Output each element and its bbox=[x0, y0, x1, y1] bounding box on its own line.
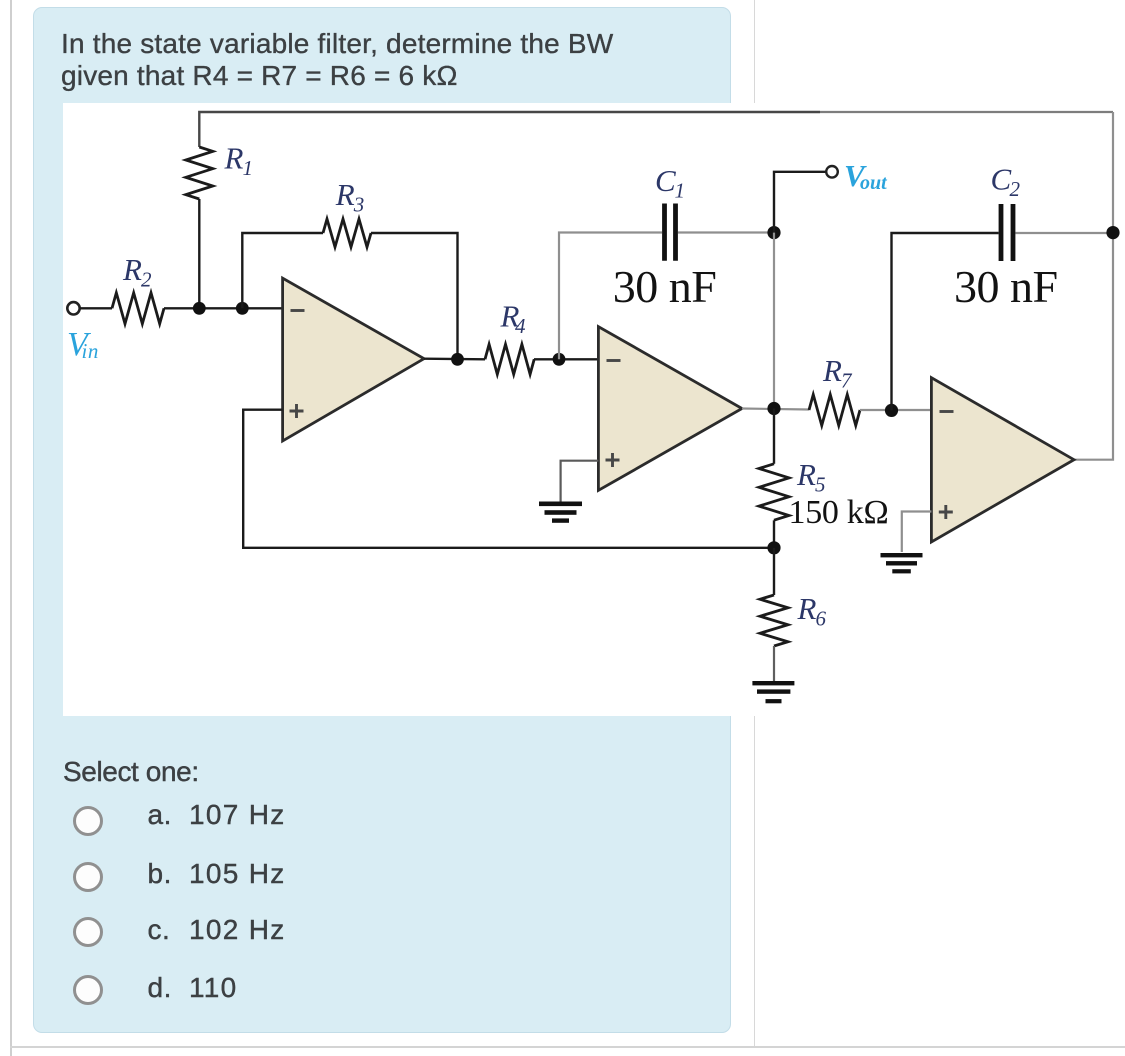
wire C1 right plate to Vout node bbox=[678, 231, 774, 233]
ground U3 plus bbox=[881, 553, 923, 573]
wire right vertical from C2 node down to op-amp U3 output bbox=[1074, 233, 1113, 460]
svg-text:1: 1 bbox=[675, 179, 686, 203]
svg-text:C: C bbox=[991, 162, 1012, 197]
node bottom rail junction R5/R6 bbox=[767, 541, 780, 554]
label value 30 nF for C2 bbox=[954, 261, 1058, 312]
node junction R7 / C2 branch bbox=[885, 404, 898, 417]
svg-text:R: R bbox=[122, 252, 142, 287]
ground R6 bbox=[752, 681, 794, 703]
wire R3 right side down to U1 output bbox=[371, 233, 458, 359]
resistor R4 bbox=[485, 344, 534, 374]
wire C1 left branch vertical bbox=[559, 233, 662, 360]
wire right vertical from top corner down to C2 right node bbox=[1112, 112, 1114, 233]
node junction R1/R2 bbox=[193, 302, 206, 315]
svg-text:R: R bbox=[822, 353, 842, 388]
label R6 bbox=[797, 591, 827, 631]
resistor R1 bbox=[186, 147, 213, 199]
svg-text:3: 3 bbox=[353, 193, 365, 217]
node junction R4 / C1 branch bbox=[553, 353, 566, 366]
wire R4 to op-amp U2 inverting input bbox=[534, 358, 598, 360]
svg-text:C: C bbox=[655, 163, 676, 198]
op-amp U3 bbox=[931, 378, 1074, 542]
capacitor C1 bbox=[665, 204, 676, 261]
svg-text:2: 2 bbox=[1010, 177, 1021, 201]
wire rail node to R6 bbox=[773, 548, 775, 595]
svg-text:R: R bbox=[335, 177, 355, 212]
wire from R1 bottom to input node bbox=[198, 199, 200, 308]
wire R7 to op-amp U3 inverting input bbox=[860, 409, 931, 411]
svg-text:5: 5 bbox=[815, 473, 826, 497]
wire U3 plus input to ground bbox=[902, 512, 932, 553]
op-amp U1 bbox=[283, 278, 424, 441]
label Vin bbox=[67, 326, 99, 363]
wire U2 plus input to ground bbox=[561, 461, 599, 502]
resistor R5 150 kOhm bbox=[759, 464, 789, 520]
svg-text:R: R bbox=[797, 591, 817, 626]
wire U1 plus input feedback loop to bottom rail bbox=[243, 410, 774, 548]
svg-text:R: R bbox=[796, 457, 816, 492]
svg-text:2: 2 bbox=[141, 268, 152, 292]
label C1 bbox=[655, 163, 685, 203]
svg-text:30 nF: 30 nF bbox=[613, 261, 717, 312]
label value 30 nF for C1 bbox=[613, 261, 717, 312]
svg-text:in: in bbox=[82, 339, 99, 363]
node U1 output junction bbox=[451, 353, 464, 366]
node Vout terminal bbox=[826, 166, 838, 178]
svg-text:150 kΩ: 150 kΩ bbox=[789, 494, 889, 531]
node Vin terminal bbox=[67, 302, 79, 314]
wire U2 output to R7 bbox=[742, 409, 809, 410]
wire Vin to R2 bbox=[80, 307, 112, 309]
label Vout bbox=[844, 158, 888, 194]
label R4 bbox=[500, 298, 527, 338]
label R1 bbox=[224, 141, 254, 181]
resistor R3 bbox=[323, 219, 371, 247]
ground U2 plus bbox=[539, 502, 582, 523]
wire R5 branch from U2 output down bbox=[773, 409, 775, 464]
resistor R7 bbox=[809, 395, 860, 426]
label R2 bbox=[122, 252, 152, 292]
svg-text:7: 7 bbox=[841, 369, 853, 393]
label C2 bbox=[991, 162, 1021, 202]
svg-text:out: out bbox=[860, 172, 888, 194]
capacitor C2 bbox=[1001, 204, 1013, 261]
wire C2 left branch vertical bbox=[892, 233, 999, 410]
svg-text:4: 4 bbox=[515, 314, 526, 338]
wire R5 bottom to rail node bbox=[773, 520, 775, 548]
label value 150 kOhm for R5 bbox=[789, 494, 889, 531]
wire C2 right plate to right rail bbox=[1016, 232, 1114, 234]
resistor R6 bbox=[760, 595, 788, 646]
label R3 bbox=[335, 177, 365, 217]
svg-text:30 nF: 30 nF bbox=[954, 261, 1058, 312]
svg-text:R: R bbox=[224, 141, 244, 176]
node C2 right junction bbox=[1106, 226, 1119, 239]
resistor R2 bbox=[112, 293, 164, 324]
wire Vout stub bbox=[774, 172, 826, 233]
label R7 bbox=[822, 353, 853, 393]
wire top feedback from above R1 to top-right corner bbox=[199, 112, 1113, 147]
label R5 bbox=[796, 457, 826, 497]
node junction R3 branch bbox=[236, 302, 249, 315]
wire R2 to op-amp U1 inverting input bbox=[164, 307, 283, 309]
svg-text:6: 6 bbox=[816, 607, 827, 631]
wire Vout node down to U2 output bbox=[773, 233, 775, 409]
wire U1 output to R4 bbox=[424, 358, 485, 361]
node U2 output junction bbox=[767, 402, 780, 415]
op-amp U2 bbox=[598, 327, 742, 491]
svg-text:1: 1 bbox=[243, 156, 254, 180]
wire R3 feedback left branch bbox=[242, 233, 323, 308]
wire R6 bottom to ground bbox=[773, 646, 775, 681]
node C1/Vout junction bbox=[767, 226, 780, 239]
